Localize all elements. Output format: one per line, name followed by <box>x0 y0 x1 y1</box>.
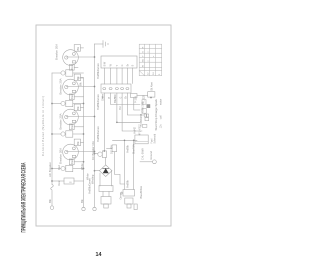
ignition coil box <box>135 135 148 144</box>
engine small part e <box>145 118 149 121</box>
svg-text:Y: Y <box>142 55 144 57</box>
breaker DC <box>98 151 107 158</box>
engine small part f <box>142 124 147 127</box>
plug P2 index circle <box>121 192 123 194</box>
receptacle CO3 <box>63 104 95 130</box>
svg-text:Red: Red <box>70 124 74 129</box>
svg-text:DC Breaker 10A: DC Breaker 10A <box>91 141 95 160</box>
svg-text:Control Panel (Symbols in circ: Control Panel (Symbols in circuit) <box>41 96 45 156</box>
svg-text:12: 12 <box>148 72 150 75</box>
svg-text:Breaker 20A: Breaker 20A <box>59 78 63 94</box>
svg-text:Red: Red <box>70 159 74 164</box>
wire DC tap <box>95 153 98 155</box>
svg-text:motor: motor <box>159 99 162 105</box>
engine small part a <box>142 100 146 105</box>
svg-text:Blk: Blk <box>76 141 80 145</box>
svg-text:Start Stop Charge Spark: Start Stop Charge Spark <box>154 98 158 130</box>
receptacle CO4 <box>63 139 95 165</box>
svg-text:DC 12V: DC 12V <box>110 145 114 154</box>
svg-text:Ground: Ground <box>149 150 153 159</box>
border frame <box>36 25 171 226</box>
engine small part d <box>144 114 146 117</box>
svg-text:o: o <box>153 55 155 57</box>
terminal lug L1 <box>50 206 54 210</box>
wire rail AC hot <box>51 73 54 206</box>
svg-text:AC Breaker: AC Breaker <box>48 162 52 177</box>
svg-text:Blk: Blk <box>76 46 80 50</box>
svg-text:Breaker 20A: Breaker 20A <box>55 44 59 60</box>
ground terminal <box>140 161 152 163</box>
svg-text:Breaker 20A: Breaker 20A <box>59 148 63 164</box>
receptacle CO2 <box>63 74 95 100</box>
svg-text:o: o <box>148 51 150 53</box>
wire w5 <box>127 93 144 115</box>
junction dots rail AC <box>51 103 53 182</box>
svg-text:Yel/Blk/Green: Yel/Blk/Green <box>96 126 100 142</box>
svg-text:Br: Br <box>126 64 129 67</box>
connector J2 <box>101 84 131 93</box>
wire rail neutral <box>78 78 84 207</box>
svg-text:Y: Y <box>116 64 119 66</box>
oil sensor <box>148 92 155 97</box>
engine small part c <box>142 109 147 114</box>
svg-text:Blk: Blk <box>76 106 80 110</box>
svg-text:G: G <box>121 64 124 66</box>
svg-text:ПРИНЦИПИАЛЬНАЯ ЭЛЕКТРИЧЕСКАЯ С: ПРИНЦИПИАЛЬНАЯ ЭЛЕКТРИЧЕСКАЯ СХЕМА <box>21 162 28 232</box>
breaker CB1 <box>52 70 84 76</box>
wire winding A <box>99 173 101 186</box>
junction dots rail neutral <box>83 103 85 170</box>
svg-text:Blue/Wht: Blue/Wht <box>133 144 136 154</box>
svg-text:Yel/Blk/Green: Yel/Blk/Green <box>96 63 100 79</box>
terminal stub T3 <box>134 204 137 210</box>
svg-text:Blk: Blk <box>79 82 83 86</box>
wire plug P2 b <box>133 140 135 189</box>
svg-text:Oil Alert: Oil Alert <box>151 82 154 91</box>
terminal ring L3 <box>93 207 96 210</box>
engine text line2 <box>159 99 162 129</box>
receptacle CO1 <box>63 45 95 71</box>
svg-text:Red: Red <box>70 94 74 99</box>
wire DC out <box>107 147 113 149</box>
junction dots rail ground <box>94 56 96 171</box>
rectifier BR1 <box>95 158 113 177</box>
svg-text:Solenoid: Solenoid <box>153 133 156 143</box>
connector J2 pin labels <box>103 96 128 99</box>
svg-text:Blk: Blk <box>48 199 52 203</box>
wire green <box>103 93 105 151</box>
svg-text:Yel/Blk: Yel/Blk <box>125 144 129 153</box>
stub box J3 <box>131 94 138 98</box>
breaker CB3 <box>52 131 84 137</box>
svg-text:B/W: B/W <box>103 61 106 66</box>
engine small part b <box>147 104 151 108</box>
wire plug P2 a <box>124 140 126 189</box>
ground symbol <box>95 41 109 48</box>
terminal ring L2 <box>82 207 85 210</box>
svg-text:Bk: Bk <box>142 58 144 61</box>
wire bus vertical <box>113 139 138 141</box>
svg-text:Winding: Winding <box>91 174 95 184</box>
breaker CB4 <box>52 165 84 171</box>
svg-text:Yel/Blk/Green: Yel/Blk/Green <box>96 94 100 110</box>
svg-text:P-15V: P-15V <box>134 96 137 103</box>
svg-text:coil: coil <box>160 115 163 119</box>
wire w3 <box>117 93 140 122</box>
svg-text:G: G <box>142 51 144 53</box>
wire rail ground <box>94 44 96 207</box>
svg-text:12v: 12v <box>159 124 162 129</box>
svg-text:Yel/Blk: Yel/Blk <box>125 179 129 188</box>
svg-text:Blue/White: Blue/White <box>139 185 143 198</box>
svg-text:5: 5 <box>159 73 161 75</box>
socket DC12V <box>112 145 117 152</box>
connector plug P2 <box>123 190 135 209</box>
svg-text:Breaker 20A: Breaker 20A <box>59 113 63 129</box>
svg-text:R: R <box>142 46 144 48</box>
svg-text:Red: Red <box>57 165 61 170</box>
engine designation labels <box>133 94 146 154</box>
breaker CB2 <box>52 100 84 106</box>
svg-text:34: 34 <box>153 72 155 75</box>
wires J1-J2 <box>104 68 132 84</box>
svg-text:B: B <box>132 64 135 66</box>
svg-text:S: S <box>69 181 73 183</box>
svg-text:Blk/Wht: Blk/Wht <box>113 94 117 103</box>
svg-text:Yel/42: Yel/42 <box>133 127 136 134</box>
svg-text:Yel: Yel <box>118 106 122 110</box>
svg-text:Blk: Blk <box>80 199 84 203</box>
connector plug P1 <box>99 186 113 209</box>
svg-text:Green: Green <box>101 93 105 101</box>
svg-text:14: 14 <box>96 252 102 258</box>
terminal block J1 <box>101 56 137 68</box>
svg-text:Green: Green <box>119 192 123 200</box>
svg-text:W: W <box>110 63 113 66</box>
svg-text:Red: Red <box>57 180 61 185</box>
svg-text:CHL-5/WA: CHL-5/WA <box>142 148 145 160</box>
svg-text:o: o <box>148 60 150 62</box>
wire w6 <box>134 98 140 111</box>
fuse F1 <box>52 178 84 184</box>
svg-text:W: W <box>142 64 144 67</box>
svg-text:Red: Red <box>70 64 74 69</box>
title table <box>139 44 162 76</box>
svg-text:4FL-YB2J: 4FL-YB2J <box>139 123 142 135</box>
wire w2 <box>111 93 140 105</box>
wire winding B <box>111 171 113 186</box>
wire w4 <box>122 93 142 131</box>
